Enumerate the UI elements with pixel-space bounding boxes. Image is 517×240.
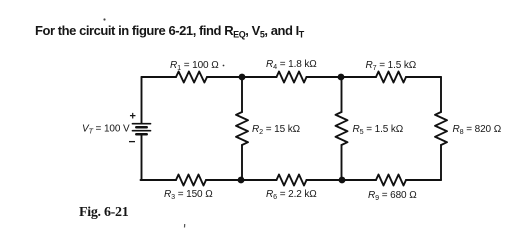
resistor R9	[376, 175, 406, 186]
wire right rail upper (top rail to R8)	[440, 77, 442, 112]
wire bottom rail R6 to node D	[307, 179, 342, 181]
wire branch node B down to R5	[341, 77, 343, 112]
wire top rail R4 to node B	[307, 76, 342, 78]
svg-text:R3 = 150 Ω: R3 = 150 Ω	[164, 189, 213, 201]
wire top rail node B to R7	[341, 76, 376, 78]
resistor R2	[236, 112, 248, 145]
junction node A (top, R1/R4/R2)	[239, 74, 246, 81]
resistor R8	[435, 112, 447, 145]
resistor R5	[336, 112, 348, 145]
resistor R1	[176, 72, 207, 83]
stray dot after R1 label	[223, 65, 225, 67]
svg-text:For the circuit in figure 6-21: For the circuit in figure 6-21, find REQ…	[35, 23, 305, 40]
scan speck below figure	[184, 224, 186, 228]
resistor R3	[176, 175, 206, 186]
svg-text:VT = 100 V: VT = 100 V	[82, 124, 130, 136]
svg-text:−: −	[129, 135, 136, 149]
battery VT plate long lower	[133, 130, 151, 132]
svg-text:Fig. 6-21: Fig. 6-21	[79, 205, 129, 220]
wire bottom rail node C to R6	[241, 179, 277, 181]
wire right rail lower (R8 to bottom rail)	[440, 145, 442, 180]
wire branch node A down to R2	[241, 77, 243, 112]
scan speck above title	[103, 18, 105, 20]
wire bottom rail R9 to bottom-right corner	[406, 179, 441, 181]
svg-text:R7 = 1.5 kΩ: R7 = 1.5 kΩ	[366, 60, 417, 72]
wire R5 down to node D	[341, 145, 343, 180]
svg-text:R8 = 820 Ω: R8 = 820 Ω	[453, 124, 502, 136]
battery VT plate long top	[133, 123, 151, 125]
wire top rail R7 to top-right corner	[406, 76, 441, 78]
svg-text:R6 = 2.2 kΩ: R6 = 2.2 kΩ	[266, 189, 317, 201]
svg-text:R5 = 1.5 kΩ: R5 = 1.5 kΩ	[353, 124, 404, 136]
junction node D (bottom, R6/R9/R5)	[339, 177, 346, 184]
battery VT plate short bottom	[136, 133, 146, 136]
wire R2 down to node C	[241, 145, 243, 180]
wire top rail node A to R4	[242, 76, 277, 78]
resistor R4	[277, 72, 307, 83]
junction node C (bottom, R3/R6/R2)	[238, 177, 245, 184]
wire bottom rail left segment to R3	[141, 179, 177, 181]
svg-text:R9 = 680 Ω: R9 = 680 Ω	[368, 190, 417, 202]
wire bottom rail R3 to node C	[206, 179, 241, 181]
wire top rail left segment (source to R1)	[142, 76, 177, 78]
svg-text:R1 = 100 Ω: R1 = 100 Ω	[170, 60, 219, 72]
svg-text:+: +	[130, 111, 136, 123]
wire left rail lower (battery - to bottom rail)	[141, 135, 143, 180]
wire bottom rail node D to R9	[342, 179, 377, 181]
wire left rail upper (battery + to top rail)	[141, 77, 143, 123]
battery VT plate short upper	[136, 126, 146, 129]
resistor R7	[376, 72, 406, 83]
junction node B (top, R4/R7/R5)	[338, 74, 345, 81]
wire top rail R1 to node A	[207, 76, 242, 78]
svg-text:R4 = 1.8 kΩ: R4 = 1.8 kΩ	[266, 59, 317, 71]
svg-text:R2 = 15 kΩ: R2 = 15 kΩ	[252, 124, 301, 136]
resistor R6	[277, 175, 307, 186]
